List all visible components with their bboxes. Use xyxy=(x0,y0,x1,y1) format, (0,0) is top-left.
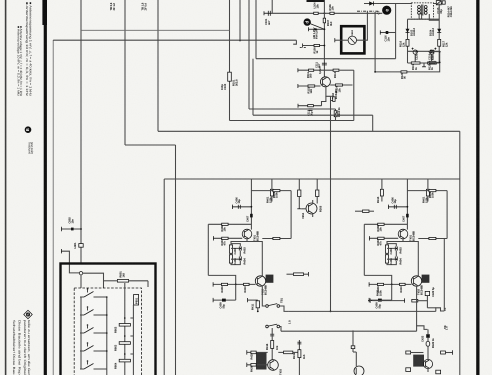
resistor near T403 xyxy=(284,351,293,354)
ladder resistor 3 xyxy=(119,359,130,362)
T102 collector lead xyxy=(323,78,327,81)
terminal tick xyxy=(308,272,310,276)
T403 label block xyxy=(256,353,267,370)
wire bus vertical to keyboard xyxy=(80,0,82,264)
wire vertical left section rail xyxy=(175,145,177,375)
wire vertical short stub xyxy=(239,0,241,41)
capacitor C101 plates xyxy=(267,11,269,16)
center sub stage resistor b xyxy=(316,190,319,197)
wires xyxy=(427,329,429,334)
ladder resistor 1 xyxy=(119,324,130,327)
node dot xyxy=(324,28,326,30)
detector bottom rail xyxy=(408,62,440,64)
detector right leg xyxy=(438,4,440,64)
T102 base bar xyxy=(322,79,324,85)
AF takeoff corner xyxy=(428,52,440,72)
wire vertical supply rail 2 xyxy=(255,0,257,59)
measuring point f circle xyxy=(382,6,391,15)
meter circle with needle xyxy=(348,36,356,44)
branch wire into box xyxy=(61,251,79,273)
keyboard bold box frame xyxy=(61,264,156,375)
wire horizontal supply to detector xyxy=(256,58,396,60)
resistor R105 on top line xyxy=(314,12,319,14)
V204 wires xyxy=(301,208,306,210)
detector input vertical xyxy=(395,4,397,59)
wire from connector right xyxy=(83,273,104,297)
resistor R119 body xyxy=(411,62,420,64)
node dot xyxy=(324,45,326,47)
ladder rail vertical xyxy=(124,283,126,375)
left fold black bar xyxy=(44,0,47,375)
T102 emitter lead xyxy=(323,84,327,87)
T404 feed resistor xyxy=(351,346,355,349)
small resistor body xyxy=(429,61,435,63)
ladder ties xyxy=(130,318,133,354)
vertical from meter area xyxy=(374,12,376,72)
tape contact pair lower xyxy=(266,325,269,328)
wire horizontal AGC return xyxy=(230,120,354,122)
T405 resistors xyxy=(406,351,411,354)
main vertical to AF section xyxy=(330,96,332,311)
horizontal mid line y115 xyxy=(253,114,373,116)
resistor R116 body xyxy=(406,39,409,46)
diode D104 AA112 xyxy=(437,29,441,33)
C120 plus mark xyxy=(412,48,414,50)
test point symbol B xyxy=(25,126,32,133)
bottom AF bus lower xyxy=(281,330,417,332)
measuring point d circle xyxy=(304,18,311,25)
resistor R115 body xyxy=(308,85,315,87)
resistor R801 body xyxy=(117,280,128,283)
driver transistor V204 xyxy=(306,203,317,214)
ladder resistor 2 xyxy=(119,342,130,345)
left drop wire xyxy=(271,328,273,360)
diode D101 xyxy=(369,1,373,5)
wire hook down xyxy=(293,40,296,44)
node dot xyxy=(324,12,326,14)
switch S5 xyxy=(80,360,97,369)
top edge component black blob xyxy=(307,0,325,2)
emitter network cap xyxy=(330,99,333,101)
capacitor C111 plates on rail xyxy=(322,62,327,64)
wire base branch xyxy=(298,85,321,87)
T403 left wires xyxy=(247,351,268,353)
left channel amplifier xyxy=(208,179,291,309)
wire measure tap 2 xyxy=(303,45,325,47)
wire horizontal detector top line xyxy=(264,12,382,14)
wire below connector xyxy=(80,275,82,297)
hanging resistor right channel R415 xyxy=(380,189,383,196)
diode D103 AA112 xyxy=(406,29,410,33)
right mid network t-bar xyxy=(368,300,372,302)
output transistor T403 xyxy=(268,360,279,371)
resistor on mid drop xyxy=(298,350,301,358)
node square xyxy=(315,28,317,30)
bottom AF bus upper xyxy=(289,310,436,312)
terminal tick xyxy=(263,11,265,15)
node dot xyxy=(439,51,441,53)
resistor R107 body on rail xyxy=(323,18,325,23)
wire right frame vertical xyxy=(459,131,461,375)
T405 label block xyxy=(413,355,424,367)
resistor on left drop xyxy=(271,341,274,349)
resistor R117 body xyxy=(438,39,441,46)
detector output wire long xyxy=(375,71,428,73)
center sub stage resistor a xyxy=(298,190,301,197)
wire vertical supply xyxy=(157,0,159,131)
R118 wires xyxy=(335,109,337,111)
node dot xyxy=(439,62,441,64)
safety symbol diamond xyxy=(24,310,32,318)
switch S3 xyxy=(80,324,97,333)
emitter network resistor xyxy=(333,97,335,102)
resistor small on coil lead xyxy=(419,14,422,19)
resistor R113 body xyxy=(333,69,339,71)
node dot xyxy=(374,71,376,73)
left page scan edge line xyxy=(5,0,7,375)
T404 feed wires xyxy=(352,330,354,345)
resistor R111 body xyxy=(309,69,314,71)
resistor R120 body xyxy=(428,62,437,64)
terminal tick xyxy=(297,208,301,210)
cap solid xyxy=(71,228,74,231)
wire xyxy=(372,300,404,302)
tape contact pair upper xyxy=(266,305,269,308)
C121 plus mark xyxy=(434,48,436,50)
resistor xyxy=(412,299,418,302)
terminal tick xyxy=(404,298,406,302)
switch S1 xyxy=(80,288,97,297)
center bottom transistor T404 xyxy=(354,366,364,375)
top right feed wire xyxy=(364,3,444,5)
meter left terminal wire xyxy=(335,39,348,41)
contact jog down xyxy=(427,307,435,309)
node dot bus junction xyxy=(330,311,332,313)
dashed switch assembly box xyxy=(74,288,141,375)
wire vertical antenna input xyxy=(271,0,273,13)
terminal tick xyxy=(297,84,299,88)
D102 wire xyxy=(428,51,440,53)
amplifier section top rail xyxy=(164,178,460,180)
detector left leg xyxy=(407,19,409,63)
switch output stubs xyxy=(97,297,107,369)
transformer core lines xyxy=(421,5,423,16)
T405 wires xyxy=(411,352,424,354)
wires xyxy=(287,273,294,275)
wire faint horizontal xyxy=(81,29,230,31)
corner from supply xyxy=(252,59,254,115)
IF transformer dashed box xyxy=(411,3,433,19)
corner down from y115 xyxy=(372,115,374,131)
terminal tick xyxy=(302,44,304,48)
V204 collector resistor xyxy=(363,210,370,212)
wire jog horizontal xyxy=(125,144,176,146)
left channel stage2 bias resistor xyxy=(294,273,304,276)
terminal tick xyxy=(60,227,62,231)
vertical with electrolytic xyxy=(426,291,428,308)
scan noise overlay xyxy=(0,0,1,1)
cap on left drop xyxy=(270,333,274,335)
diode D102 xyxy=(430,50,434,54)
switch S2 xyxy=(80,306,97,315)
switch left feed rail xyxy=(80,297,82,369)
contact jog to bus xyxy=(280,327,281,332)
keyboard unit above-box capacitor branch xyxy=(61,228,81,230)
main IF vertical rail xyxy=(323,0,325,77)
meter box bold frame xyxy=(341,26,364,53)
ground stub xyxy=(423,63,425,67)
wire vertical TB rail xyxy=(124,0,126,145)
right TB contact xyxy=(417,326,428,331)
transformer primary coil xyxy=(418,6,421,15)
transistor T102 circle xyxy=(320,77,330,87)
resistor R101 body xyxy=(228,72,232,81)
terminal tick xyxy=(308,27,310,31)
detector mid rail xyxy=(408,50,440,52)
contact jog to bus xyxy=(280,306,289,311)
connector circle xyxy=(79,272,82,275)
right page scan black bar xyxy=(476,0,479,375)
dash dot alignment line xyxy=(357,10,379,12)
wire vertical to IF xyxy=(248,0,250,109)
switch feed stubs xyxy=(80,297,81,369)
secondary tap wire xyxy=(429,14,439,20)
ladder tie rail xyxy=(132,305,134,375)
terminal tick xyxy=(297,68,299,72)
right TA contact xyxy=(436,308,445,312)
wire R113 to x353 xyxy=(339,69,354,71)
test cap branch xyxy=(380,32,395,34)
trimmer caps top right cluster xyxy=(436,1,441,5)
wire xyxy=(428,61,440,63)
wire horizontal low line xyxy=(53,39,296,41)
ladder junction dots xyxy=(124,317,126,319)
terminal tick xyxy=(297,104,299,108)
wire upper branch xyxy=(298,69,337,71)
collector resistor R114 xyxy=(330,84,352,86)
oval resistor right low xyxy=(426,341,430,346)
wire horizontal IF feed xyxy=(249,108,336,110)
resistor R118 on feed xyxy=(334,111,337,117)
series component on bus xyxy=(79,244,83,248)
cap on mid drop xyxy=(297,341,301,343)
vertical feedback line xyxy=(353,70,355,120)
dash dot stub xyxy=(300,47,302,49)
right channel amplifier xyxy=(364,179,447,309)
left fold black bar thick top cap xyxy=(42,0,47,25)
electrolytic C120 xyxy=(413,50,417,54)
emitter wire down xyxy=(326,87,331,97)
lower branch y105.7 xyxy=(298,105,322,107)
detector loop top wire xyxy=(408,18,440,20)
fold crease thin line xyxy=(52,40,54,375)
switch rail junction dots xyxy=(106,296,108,298)
wire emitter junction xyxy=(331,95,335,97)
pointer line from d xyxy=(310,24,324,30)
P801 label box xyxy=(134,295,139,306)
wire long horizontal section divider xyxy=(158,130,460,132)
wire vertical AGC xyxy=(229,0,231,121)
switch S4 xyxy=(80,342,97,351)
resistor R801 wires xyxy=(104,280,118,282)
output transistor T405 xyxy=(423,359,432,368)
solid cap right low xyxy=(426,334,430,338)
node dot xyxy=(239,40,241,42)
wire xyxy=(418,300,428,302)
right mid vertical xyxy=(443,238,445,311)
electrolytic C121 xyxy=(430,50,434,54)
wire test tap xyxy=(309,28,325,30)
wire from left channel stage2 xyxy=(262,286,265,306)
transformer secondary coil xyxy=(424,6,427,15)
resistor R112 body xyxy=(308,105,314,107)
mid drop vertical xyxy=(298,340,300,375)
left small feed resistor branch xyxy=(246,298,248,302)
resistor R106 on top line xyxy=(330,12,334,14)
jog up to emitter xyxy=(322,96,326,105)
right channel stage2 wire to TB contact xyxy=(416,286,418,326)
meter right terminal wire xyxy=(357,12,368,41)
resistor R121 body xyxy=(401,71,407,73)
sub stage wires xyxy=(298,197,300,209)
capacitor C113 below xyxy=(309,108,313,110)
switch output rail xyxy=(106,297,108,375)
resistor R109 body xyxy=(314,44,320,46)
wire xyxy=(278,351,283,353)
node dot cap to bus xyxy=(80,228,82,230)
terminal tick xyxy=(60,249,62,253)
left frame of AF section xyxy=(163,179,165,375)
